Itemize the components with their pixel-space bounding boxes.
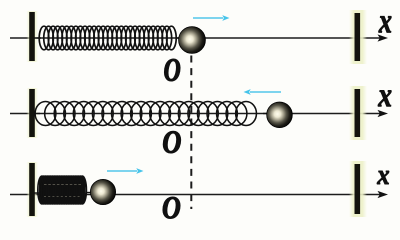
axis line x row 1 [10,37,380,39]
velocity arrow row 3 (right) [107,168,144,174]
label O row 2 [163,131,180,153]
axis arrowhead row 2 [378,110,389,117]
right wall row 1 [355,13,361,61]
dashed equilibrium line through O [190,56,192,210]
label x row 2 [378,91,391,107]
spring (tight coil) row 1 [34,26,180,50]
label x row 1 [379,16,392,32]
axis line x row 2 [10,113,380,115]
right wall row 3 [355,164,361,214]
velocity arrow row 2 (left) [244,89,282,95]
velocity arrow row 1 (right) [193,15,230,21]
spring (stretched coil) row 2 [34,102,267,126]
right wall row 2 [355,89,361,137]
left wall halo row 3 [27,162,39,217]
axis arrowhead row 3 [378,191,389,198]
ball (mass) row 1 [179,27,206,54]
label O row 3 [163,197,180,219]
spring (compressed coil) row 3 [34,176,91,204]
left wall row 1 [29,12,35,61]
ball (mass) row 2 [267,102,293,128]
label x row 3 [377,171,389,184]
right wall halo row 3 [349,161,367,217]
ball (mass) row 3 [90,179,115,204]
left wall halo row 2 [27,88,39,138]
axis arrowhead row 1 [378,34,389,41]
label O row 1 [165,59,181,81]
axis line x row 3 [10,194,380,196]
left wall row 2 [29,89,35,137]
left wall halo row 1 [27,11,39,62]
left wall row 3 [29,163,35,216]
right wall halo row 2 [349,86,367,140]
right wall halo row 1 [349,10,367,64]
